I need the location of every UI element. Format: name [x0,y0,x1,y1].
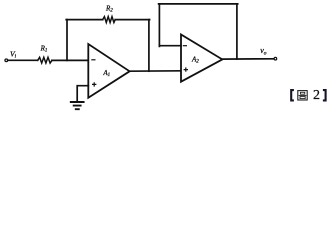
A1 minus sign [92,59,95,61]
ground [71,102,84,109]
wire A2 feedback left vertical [158,4,160,47]
wire A2 inverting input stub [159,45,181,47]
A2 minus sign [183,45,186,47]
output terminal vo [274,57,277,60]
svg-text:vo: vo [260,46,267,56]
svg-text:R1: R1 [40,44,48,53]
wire R2 top left segment [66,19,103,21]
wire R2 feedback left vertical [66,20,68,61]
op-amp A2 [181,35,222,82]
wire input terminal to R1 [8,59,38,61]
figure caption right bracket [323,90,326,100]
figure caption glyph Tu (figure) [298,91,307,100]
svg-text:Vi: Vi [10,50,17,60]
wire A1 output to A2 noninverting input [130,70,182,72]
resistor R1 [38,57,52,63]
A2 plus sign [184,68,187,71]
wire A1 noninverting input to ground [77,86,88,102]
wire R2 feedback right vertical to A1 output [148,20,150,72]
resistor R2 [103,17,116,23]
wire A2 feedback top segment [159,3,238,5]
A1 plus sign [93,83,96,86]
wire A2 feedback right vertical to output [236,4,238,59]
wire A2 output to terminal [222,58,273,60]
input terminal Vi [5,59,8,62]
svg-text:2: 2 [313,88,320,103]
figure caption left bracket [291,90,294,100]
wire R2 top right segment [115,19,149,21]
wire R1 to A1 inverting input [52,59,88,61]
svg-text:R2: R2 [105,5,113,14]
op-amp A1 [88,44,129,98]
